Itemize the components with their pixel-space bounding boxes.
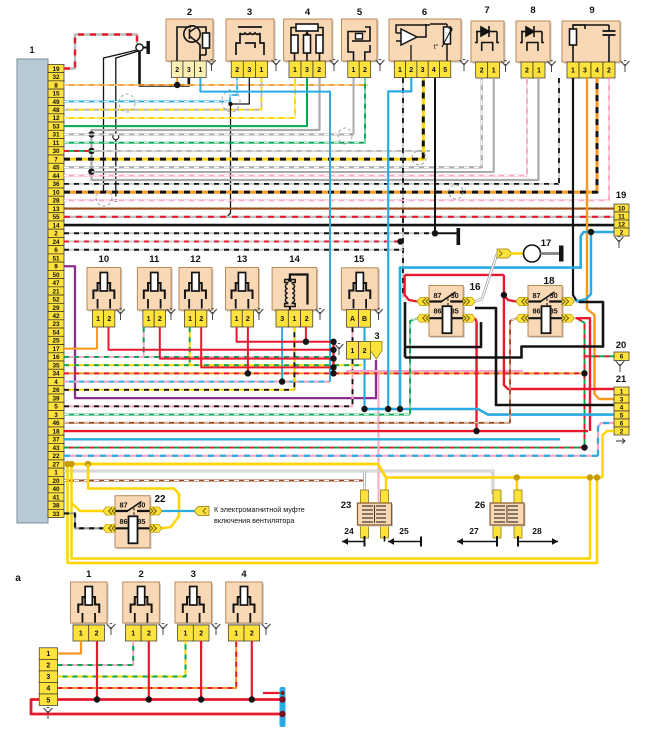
svg-text:2: 2 [95, 631, 99, 638]
svg-text:10: 10 [618, 205, 626, 212]
svg-text:3: 3 [421, 67, 425, 74]
svg-text:27: 27 [469, 526, 479, 536]
wire pin 28 [64, 78, 609, 200]
svg-text:1: 1 [492, 68, 496, 75]
svg-text:30: 30 [550, 291, 558, 300]
ground glyph [208, 309, 217, 320]
wire cyan fan clutch [162, 510, 197, 512]
svg-text:2: 2 [525, 68, 529, 75]
component box 12 [181, 269, 214, 312]
wire 9-3 orange [587, 78, 614, 399]
relay K16 [431, 287, 465, 338]
a red drop 3 [200, 641, 202, 700]
svg-text:2: 2 [620, 229, 624, 236]
svg-text:43: 43 [52, 445, 60, 452]
block 19 pins [614, 204, 629, 212]
svg-text:44: 44 [52, 173, 60, 180]
svg-text:1: 1 [351, 348, 355, 355]
svg-text:10: 10 [52, 189, 60, 196]
a ground glyph [159, 624, 168, 635]
svg-text:1: 1 [86, 569, 92, 580]
coil 26 terminals bottom [493, 522, 501, 538]
a component box 2 [124, 584, 161, 625]
wire red trunk [332, 342, 334, 374]
svg-text:1: 1 [352, 67, 356, 74]
a injector symbol 1 [78, 587, 99, 623]
ground at 4 [330, 60, 339, 71]
inductor symbol L3 [236, 27, 264, 55]
component box 10 [89, 269, 123, 312]
wire black Pa [405, 322, 481, 347]
component box 13 [227, 269, 260, 312]
component box 9 [564, 23, 622, 64]
wire yellow 21-2 [603, 431, 615, 478]
connector X1 body [17, 59, 48, 523]
wire black Pb [475, 308, 614, 405]
ground at 5 [376, 60, 385, 71]
svg-text:1: 1 [620, 388, 624, 395]
svg-text:2: 2 [235, 67, 239, 74]
svg-text:30: 30 [52, 148, 60, 155]
wire redgreen vert [577, 318, 585, 447]
svg-text:9: 9 [54, 264, 58, 271]
svg-text:2: 2 [199, 631, 203, 638]
block 19 ground [615, 237, 624, 248]
wire red 87-16 [405, 275, 417, 302]
svg-text:включения вентилятора: включения вентилятора [214, 516, 294, 525]
svg-text:87: 87 [120, 501, 128, 510]
wire 3-3 black [227, 78, 249, 217]
block 20 pin [614, 352, 629, 361]
pins of 2 [171, 61, 183, 78]
a ground bar cyan [280, 687, 286, 727]
wire pin 24 [64, 241, 399, 243]
wire pin 13 [64, 207, 614, 209]
trunk dots [330, 339, 336, 345]
wire 5-1 gray [353, 78, 355, 134]
wire pin 34 [64, 372, 585, 374]
wire pin 7 [64, 78, 423, 159]
svg-text:4: 4 [241, 569, 247, 580]
a pins of 2 [125, 625, 141, 641]
svg-text:86: 86 [434, 307, 442, 316]
svg-text:10: 10 [99, 254, 110, 265]
wire pin 46 [64, 422, 510, 424]
a component box 3 [177, 584, 214, 625]
svg-text:2: 2 [147, 631, 151, 638]
svg-text:85: 85 [550, 307, 558, 316]
svg-text:4: 4 [46, 686, 50, 693]
pins of 9 [567, 62, 579, 78]
wire pin 16 [64, 356, 330, 358]
wire 15A pink-black [352, 327, 354, 341]
a wire 2 pink-green [58, 641, 134, 665]
svg-text:19: 19 [52, 66, 60, 73]
svg-text:2: 2 [246, 316, 250, 323]
svg-text:1: 1 [234, 631, 238, 638]
ground at 3 [272, 60, 281, 71]
svg-text:5: 5 [357, 7, 363, 18]
wire pin 11 [64, 78, 365, 143]
potentiometer symbol R4 [291, 24, 323, 61]
wire row30 cont gw [92, 150, 431, 152]
wire pin 10 [64, 78, 597, 192]
svg-text:87: 87 [533, 291, 541, 300]
transistor symbol U2 [177, 26, 210, 61]
svg-text:25: 25 [52, 338, 60, 345]
wire junction to pin3 of 2 [140, 51, 189, 85]
svg-text:2: 2 [138, 569, 143, 580]
svg-text:50: 50 [52, 272, 60, 279]
svg-text:7: 7 [484, 5, 489, 16]
svg-text:2: 2 [363, 348, 367, 355]
svg-text:34: 34 [52, 371, 60, 378]
wire cyan 30-18 [576, 232, 592, 302]
svg-text:3: 3 [187, 67, 191, 74]
wire red L1 [109, 327, 334, 350]
spark lead 28 [517, 536, 519, 542]
wire pin 49 [64, 78, 237, 101]
a bar dots [279, 696, 285, 702]
wire pin 14 [64, 224, 614, 227]
coil 23 terminals top [361, 490, 369, 504]
wire pin 2 [64, 232, 435, 234]
svg-text:35: 35 [52, 362, 60, 369]
svg-text:2: 2 [158, 316, 162, 323]
svg-text:27: 27 [52, 461, 60, 468]
svg-text:16: 16 [469, 282, 481, 293]
pins of 10 [92, 310, 103, 327]
wire white coil23 [363, 471, 366, 494]
a wire 4 orange-red [58, 641, 237, 688]
coil 23 body [359, 505, 393, 527]
injector symbol 13 [232, 273, 253, 309]
wire black stub2 [435, 232, 457, 234]
wire 11-1 [143, 327, 145, 357]
wire bw right [558, 78, 560, 184]
wire pin 6 [64, 249, 403, 251]
svg-text:20: 20 [616, 340, 627, 351]
wire pin 5 [64, 405, 353, 407]
diode symbol V8 [520, 26, 544, 51]
a wire 1 orange [58, 641, 82, 654]
ghost ellipse d [449, 185, 463, 199]
wire fan a [104, 50, 138, 192]
fan clutch arrow [194, 507, 209, 516]
connector 3 pins [347, 341, 359, 359]
wire 15B bus [363, 359, 365, 409]
svg-text:2: 2 [409, 67, 413, 74]
svg-text:2: 2 [107, 316, 111, 323]
svg-text:8: 8 [54, 82, 58, 89]
svg-text:1: 1 [96, 316, 100, 323]
wire 2-1 cyan [200, 78, 330, 382]
svg-text:1: 1 [29, 45, 34, 55]
coil 23 terminals bottom [361, 522, 369, 538]
relay K18 [530, 287, 564, 338]
svg-text:12: 12 [618, 221, 626, 228]
svg-text:85: 85 [137, 517, 145, 526]
a component box 1 [72, 584, 109, 625]
svg-text:37: 37 [52, 437, 60, 444]
svg-text:28: 28 [52, 198, 60, 205]
svg-text:29: 29 [52, 305, 60, 312]
svg-text:2: 2 [620, 428, 624, 435]
pins of 14 [276, 310, 288, 327]
svg-text:1: 1 [293, 67, 297, 74]
a ground glyph [107, 624, 116, 635]
wire yellow coil23TR [385, 478, 388, 492]
svg-text:23: 23 [341, 500, 352, 511]
svg-text:22: 22 [52, 453, 60, 460]
wire yellow B [72, 464, 591, 558]
svg-text:87: 87 [434, 291, 442, 300]
redgreen dots [581, 370, 587, 376]
a wire 5 red bus [58, 698, 282, 701]
wire pin 26 [64, 389, 294, 391]
wire gray net G1 [92, 78, 539, 180]
wire pin 19 [64, 35, 137, 69]
svg-text:20: 20 [52, 478, 60, 485]
spark lead 24 [364, 536, 366, 542]
injector symbol 11 [144, 273, 165, 309]
svg-text:55: 55 [52, 214, 60, 221]
ground glyph 14 [316, 309, 325, 320]
svg-text:19: 19 [616, 190, 627, 201]
svg-text:1: 1 [79, 631, 83, 638]
relay K22 [117, 497, 152, 549]
terminal cap top [143, 47, 147, 49]
svg-text:4: 4 [595, 68, 599, 75]
svg-text:17: 17 [52, 346, 60, 353]
svg-text:6: 6 [620, 354, 624, 361]
red netA dots [501, 292, 507, 298]
svg-text:2: 2 [199, 316, 203, 323]
diode symbol V7 [475, 26, 499, 51]
pins of 12 [184, 310, 195, 327]
wire conn3-1 down [352, 359, 354, 406]
svg-text:7: 7 [54, 156, 58, 163]
pins of 5 [348, 61, 359, 78]
svg-text:26: 26 [475, 500, 486, 511]
wire pin 3 [64, 414, 410, 416]
svg-text:36: 36 [52, 181, 60, 188]
component box 4 [285, 21, 333, 63]
open circle node [113, 134, 119, 140]
svg-text:46: 46 [52, 420, 60, 427]
svg-text:45: 45 [52, 165, 60, 172]
wire to 20-6 [585, 355, 615, 357]
svg-text:21: 21 [52, 288, 60, 295]
svg-text:A: A [350, 316, 355, 323]
wire pink 85-16 [475, 318, 477, 371]
svg-text:1: 1 [235, 316, 239, 323]
wire pin 18 [64, 430, 588, 432]
wire pin 48 [64, 78, 261, 110]
a red drop 2 [148, 641, 150, 700]
svg-text:1: 1 [198, 67, 202, 74]
svg-text:3: 3 [54, 412, 58, 419]
wire 14-3 cyan [281, 327, 283, 381]
svg-text:3: 3 [305, 67, 309, 74]
svg-text:4: 4 [305, 7, 311, 18]
a red stub [263, 692, 281, 694]
a injector symbol 3 [183, 587, 204, 623]
svg-text:1: 1 [259, 67, 263, 74]
svg-text:1: 1 [537, 68, 541, 75]
connector 3 arrow [371, 341, 382, 359]
a wire 3 green-yellow [58, 641, 186, 677]
svg-text:11: 11 [53, 140, 60, 147]
svg-text:30: 30 [451, 291, 459, 300]
svg-text:1: 1 [188, 316, 192, 323]
spark lead 27 [496, 536, 498, 542]
ghost ellipse e [338, 128, 352, 144]
pins of 13 [231, 310, 242, 327]
injector symbol 12 [185, 273, 206, 309]
svg-text:11: 11 [618, 213, 625, 220]
a red drop 4 [251, 641, 253, 700]
svg-text:2: 2 [250, 631, 254, 638]
wire branch 2-2 [176, 78, 178, 85]
ground at 7 [501, 61, 510, 72]
component box 15 [343, 269, 380, 311]
svg-text:4: 4 [620, 404, 624, 411]
wire pin 22 [64, 455, 598, 457]
svg-text:12: 12 [190, 254, 201, 265]
svg-text:13: 13 [52, 206, 60, 213]
ground glyph 15 [374, 309, 383, 320]
wire cyan bus [365, 409, 615, 415]
connector X1 pin boxes [48, 64, 64, 72]
svg-text:51: 51 [52, 255, 60, 262]
ground at 6 [460, 60, 469, 71]
a injector symbol 2 [131, 587, 152, 623]
svg-text:3: 3 [247, 67, 251, 74]
wire yellow rail [386, 476, 603, 479]
resistor-capacitor symbol Z9 [570, 25, 616, 62]
svg-text:3: 3 [620, 396, 624, 403]
injector symbol 10 [93, 273, 114, 309]
svg-text:6: 6 [422, 7, 427, 18]
wire 12-1 [189, 327, 191, 365]
svg-text:1: 1 [398, 67, 402, 74]
ghost ellipse b [412, 151, 426, 165]
wire pin 33 [64, 513, 103, 528]
pins of 15 [347, 310, 359, 328]
wire 9-1 black [573, 78, 579, 302]
svg-text:48: 48 [52, 107, 60, 114]
component box 3 [228, 21, 276, 63]
a pins of 3 [178, 625, 194, 641]
svg-text:18: 18 [543, 276, 555, 287]
svg-text:2: 2 [480, 68, 484, 75]
wire red netA top [405, 274, 504, 276]
svg-text:86: 86 [533, 307, 541, 316]
svg-text:12: 12 [52, 115, 60, 122]
svg-text:1: 1 [147, 316, 151, 323]
a ground glyph [212, 624, 221, 635]
svg-text:1: 1 [131, 631, 135, 638]
wire 86-16 gw [410, 318, 417, 414]
spark lead 25 [384, 536, 386, 542]
svg-text:2: 2 [54, 231, 58, 238]
svg-text:К электромагнитной муфте: К электромагнитной муфте [214, 505, 305, 514]
svg-text:53: 53 [52, 123, 60, 130]
svg-text:9: 9 [589, 5, 594, 16]
pins of 11 [143, 310, 154, 327]
wire red 87-18 [504, 275, 516, 302]
svg-text:54: 54 [52, 329, 60, 336]
wire pin 12 [64, 78, 295, 118]
ghost ellipse c [96, 190, 112, 206]
ground at 2 [207, 60, 216, 71]
wire white to 17 [475, 254, 497, 302]
svg-text:52: 52 [52, 297, 60, 304]
svg-text:30: 30 [137, 501, 145, 510]
component 17 body [524, 245, 541, 262]
component 17 stem [541, 252, 561, 255]
svg-text:6: 6 [620, 420, 624, 427]
wire fan b2 [115, 140, 117, 188]
wire pin 45 [64, 78, 482, 167]
svg-text:24: 24 [344, 526, 354, 536]
wire red 85-16v [475, 318, 477, 431]
ground glyph [116, 309, 125, 320]
a component box 4 [227, 584, 264, 625]
a red U [31, 700, 281, 715]
svg-text:2: 2 [607, 68, 611, 75]
svg-text:28: 28 [532, 526, 542, 536]
svg-text:25: 25 [399, 526, 409, 536]
wire 21-6 pc [598, 423, 614, 456]
svg-text:3: 3 [191, 569, 196, 580]
svg-text:4: 4 [432, 67, 436, 74]
svg-text:3: 3 [247, 7, 252, 18]
pins of 7 [476, 62, 488, 78]
wire 6-4 black [434, 78, 436, 233]
svg-text:а: а [15, 573, 21, 584]
wire pin 53 [64, 78, 307, 126]
svg-text:2: 2 [305, 316, 309, 323]
coil 23 windings [362, 505, 386, 523]
ghost ellipse a [119, 94, 135, 112]
pins of 6 [394, 61, 405, 78]
svg-text:3: 3 [280, 316, 284, 323]
pins of 4 [289, 61, 301, 78]
wire yellow A [68, 464, 598, 563]
a pins of 1 [73, 625, 89, 641]
opamp symbol U6 [396, 24, 452, 61]
a connector pins [39, 648, 57, 660]
component box 6 [391, 21, 463, 63]
svg-text:3: 3 [46, 674, 50, 681]
svg-text:6: 6 [54, 247, 58, 254]
a pins of 4 [228, 625, 244, 641]
wire yellow to 87-22 [72, 503, 104, 511]
component box 7 [473, 23, 506, 64]
svg-text:1: 1 [183, 631, 187, 638]
wire red L2 [160, 327, 334, 358]
wire pin 43 [64, 447, 585, 449]
svg-text:26: 26 [52, 387, 60, 394]
pins of 3 [231, 61, 243, 78]
wire 86-18 bw [510, 318, 516, 423]
ground at 9 [621, 61, 630, 72]
svg-text:22: 22 [154, 494, 166, 505]
pins of 8 [521, 62, 533, 78]
svg-text:85: 85 [451, 307, 459, 316]
